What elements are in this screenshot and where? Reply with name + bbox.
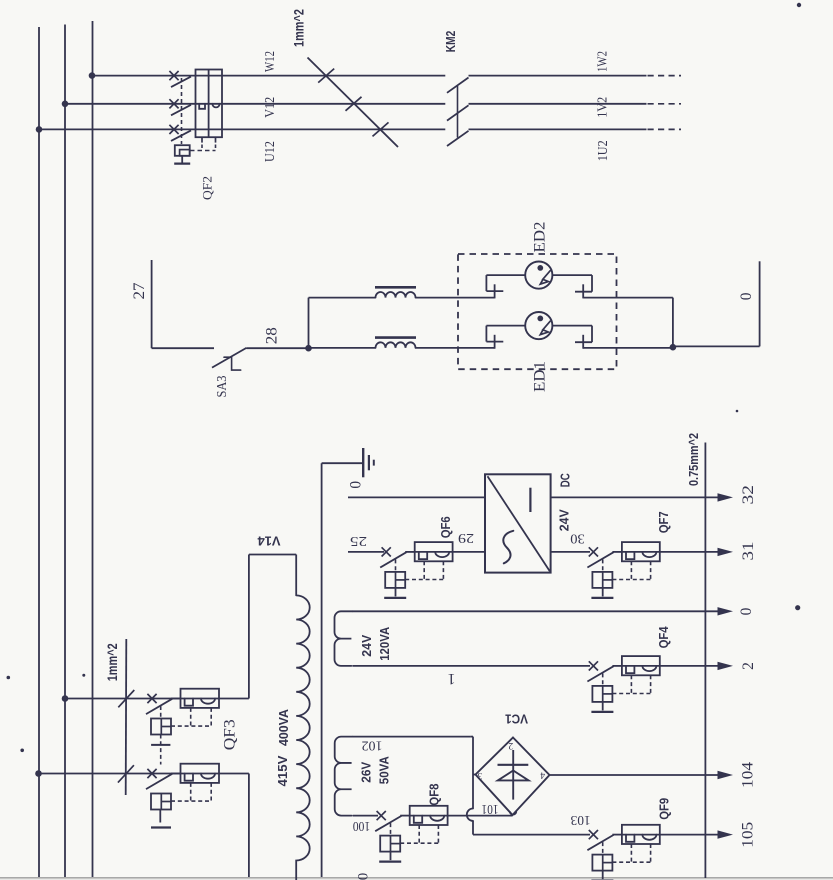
svg-text:DC: DC: [558, 473, 573, 487]
svg-text:50VA: 50VA: [377, 756, 392, 784]
svg-text:0: 0: [347, 481, 364, 489]
svg-text:29: 29: [458, 530, 474, 545]
svg-text:0: 0: [738, 607, 755, 615]
svg-text:32: 32: [740, 485, 757, 505]
svg-text:1W2: 1W2: [595, 51, 610, 72]
svg-text:VC1: VC1: [505, 712, 528, 727]
svg-text:102: 102: [362, 738, 383, 753]
svg-text:30: 30: [570, 532, 585, 547]
svg-text:QF6: QF6: [438, 516, 453, 538]
svg-text:QF9: QF9: [657, 798, 672, 820]
svg-text:1mm^2: 1mm^2: [105, 643, 120, 681]
svg-text:25: 25: [350, 533, 367, 548]
svg-text:1mm^2: 1mm^2: [292, 9, 307, 47]
svg-text:27: 27: [131, 282, 148, 299]
svg-text:ED2: ED2: [532, 222, 549, 253]
svg-text:QF7: QF7: [656, 511, 671, 533]
svg-text:0: 0: [738, 292, 755, 300]
svg-text:0.75mm^2: 0.75mm^2: [686, 433, 701, 486]
svg-text:24V: 24V: [557, 509, 572, 531]
svg-text:31: 31: [740, 542, 757, 561]
svg-text:1U2: 1U2: [595, 140, 610, 161]
svg-text:QF4: QF4: [656, 626, 671, 649]
svg-text:V12: V12: [262, 97, 277, 118]
svg-text:0: 0: [356, 873, 372, 880]
svg-text:101: 101: [482, 801, 499, 816]
svg-text:415V: 415V: [275, 755, 290, 786]
svg-text:QF3: QF3: [221, 719, 238, 750]
svg-text:KM2: KM2: [443, 31, 458, 53]
svg-text:U12: U12: [262, 141, 277, 162]
svg-text:QF8: QF8: [426, 784, 441, 806]
svg-text:2: 2: [740, 662, 757, 670]
svg-text:2: 2: [508, 740, 513, 750]
svg-text:120VA: 120VA: [377, 627, 392, 661]
svg-text:V14: V14: [257, 534, 281, 549]
svg-text:28: 28: [263, 327, 280, 344]
svg-text:3: 3: [477, 770, 482, 780]
svg-text:ED1: ED1: [532, 361, 549, 392]
svg-text:400VA: 400VA: [276, 708, 291, 746]
svg-text:105: 105: [740, 822, 757, 848]
svg-text:26V: 26V: [359, 761, 374, 782]
svg-text:103: 103: [570, 813, 590, 828]
svg-text:1: 1: [448, 670, 456, 687]
svg-text:W12: W12: [262, 51, 277, 72]
svg-text:24V: 24V: [359, 634, 374, 656]
svg-text:104: 104: [740, 762, 757, 788]
svg-text:100: 100: [353, 819, 371, 834]
svg-text:4: 4: [540, 770, 545, 780]
svg-text:SA3: SA3: [214, 375, 229, 397]
svg-text:1V2: 1V2: [595, 97, 610, 118]
svg-text:QF2: QF2: [199, 176, 214, 200]
